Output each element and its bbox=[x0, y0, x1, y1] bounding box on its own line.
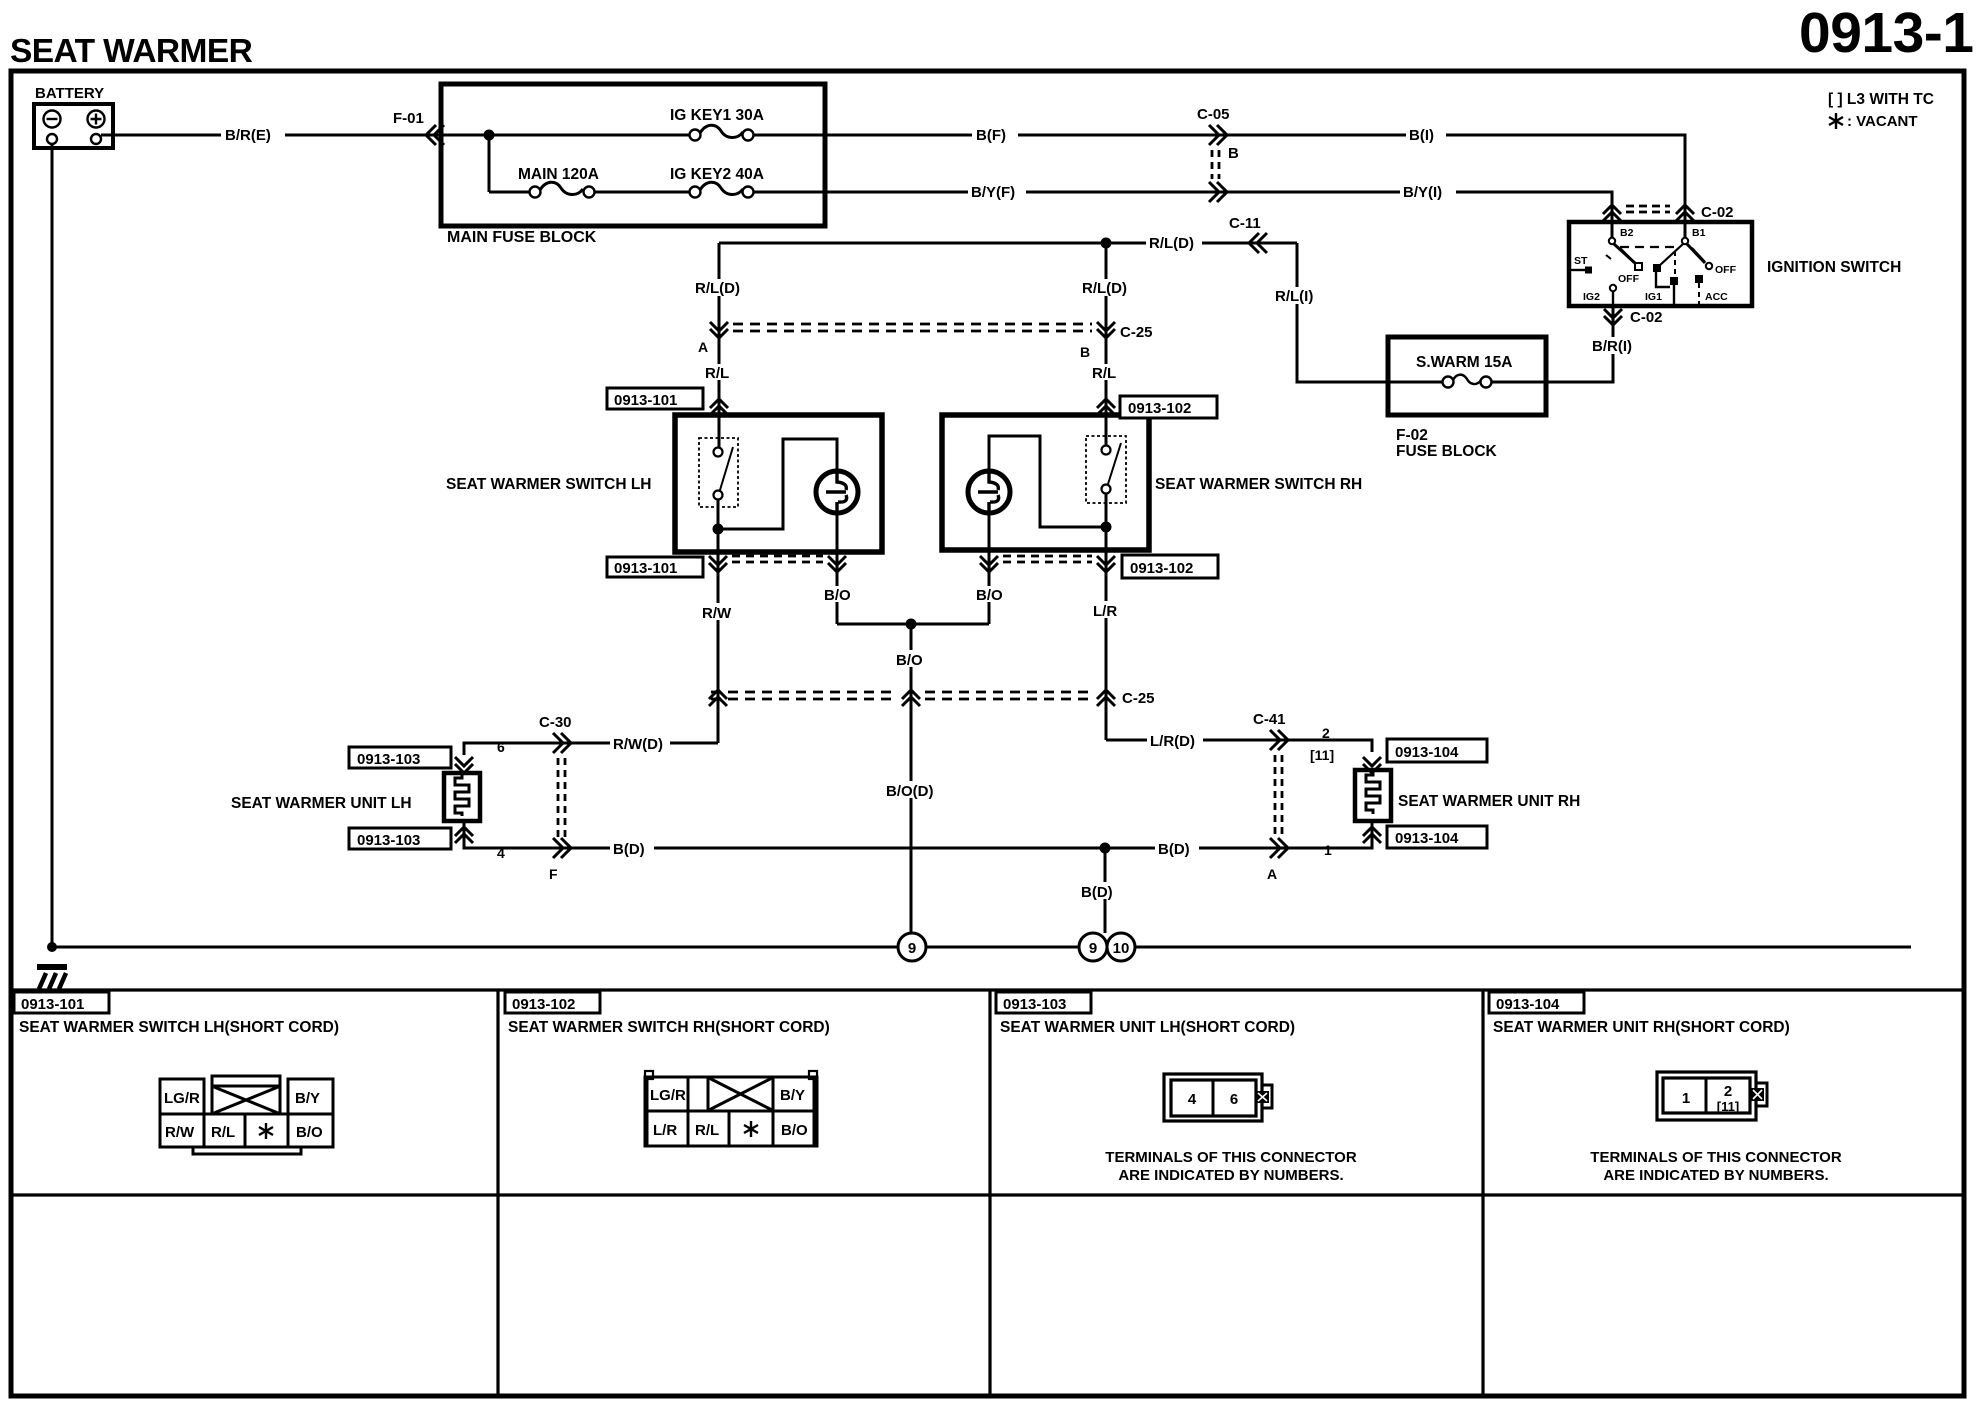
svg-text:9: 9 bbox=[908, 940, 916, 957]
svg-text:4: 4 bbox=[1188, 1091, 1197, 1108]
svg-text:IG1: IG1 bbox=[1645, 291, 1662, 303]
ignition terminal IG1 bbox=[1645, 251, 1678, 306]
id box 0913-102 lower bbox=[1122, 555, 1218, 578]
connector 0913-102 lower arrows bbox=[980, 556, 1115, 572]
connector arrow into unit RH top bbox=[1363, 757, 1381, 773]
connector C-05 bbox=[1197, 106, 1239, 202]
svg-text:R/L(D): R/L(D) bbox=[1149, 235, 1194, 252]
fuse MAIN 120A bbox=[518, 166, 599, 198]
indicator lamp RH bbox=[968, 471, 1010, 513]
svg-text:LG/R: LG/R bbox=[164, 1090, 200, 1107]
ignition terminal B2 bbox=[1609, 227, 1634, 244]
svg-text:IG KEY2 40A: IG KEY2 40A bbox=[670, 166, 764, 183]
wire R/L(D) left branch down to LH switch bbox=[718, 243, 721, 447]
wire lamp LH down bbox=[836, 513, 839, 552]
connector C-30 bbox=[497, 714, 572, 882]
svg-text:B/Y: B/Y bbox=[295, 1090, 320, 1107]
svg-text:C-02: C-02 bbox=[1630, 309, 1663, 326]
svg-text:F-02: F-02 bbox=[1396, 427, 1428, 444]
svg-text:R/W: R/W bbox=[165, 1124, 195, 1141]
battery BATTERY bbox=[34, 85, 113, 148]
svg-text:B1: B1 bbox=[1692, 227, 1706, 239]
svg-text:R/L: R/L bbox=[1092, 365, 1116, 382]
svg-text:ARE INDICATED BY NUMBERS.: ARE INDICATED BY NUMBERS. bbox=[1603, 1167, 1828, 1184]
svg-text:0913-102: 0913-102 bbox=[1128, 400, 1191, 417]
svg-text:B2: B2 bbox=[1620, 227, 1634, 239]
table vertical divider 1 bbox=[496, 990, 499, 1395]
fuse block F-02 box bbox=[1388, 337, 1546, 415]
connector 0913-101 lower arrows bbox=[709, 556, 846, 572]
svg-text:SEAT WARMER SWITCH RH: SEAT WARMER SWITCH RH bbox=[1155, 476, 1362, 493]
label F-02 FUSE BLOCK bbox=[1396, 427, 1498, 460]
connector C-41 bbox=[1253, 711, 1336, 882]
svg-text:ACC: ACC bbox=[1705, 291, 1728, 303]
wire lamp RH down bbox=[988, 513, 991, 550]
table vertical divider 3 bbox=[1481, 990, 1484, 1395]
svg-text:R/L: R/L bbox=[695, 1122, 719, 1139]
svg-text:0913-103: 0913-103 bbox=[1003, 996, 1066, 1013]
svg-text:IG KEY1 30A: IG KEY1 30A bbox=[670, 107, 764, 124]
svg-text:C-41: C-41 bbox=[1253, 711, 1286, 728]
wire B/O(D) label bbox=[883, 781, 949, 798]
fuse IG KEY2 40A bbox=[670, 166, 764, 198]
ground symbol bbox=[37, 967, 67, 989]
wire B/R(I) ignition IG2 to fuse block F-02 bbox=[1546, 306, 1613, 382]
wire fuse block row1 to row2 bbox=[488, 135, 491, 192]
connector arrow into LH switch bbox=[710, 399, 728, 415]
svg-text:F: F bbox=[549, 866, 558, 882]
connector C-02 lower bbox=[1604, 309, 1663, 326]
legend VACANT bbox=[1829, 113, 1918, 130]
svg-text:B(D): B(D) bbox=[613, 841, 645, 858]
main fuse block box bbox=[441, 84, 825, 226]
svg-text:B/O: B/O bbox=[824, 587, 851, 604]
svg-text:0913-101: 0913-101 bbox=[21, 996, 84, 1013]
wire switch LH to lamp bbox=[718, 439, 837, 552]
wire B(F) to C-05 to B(I) to ignition B1 bbox=[825, 135, 1685, 238]
svg-text:TERMINALS OF THIS CONNECTOR: TERMINALS OF THIS CONNECTOR bbox=[1590, 1149, 1842, 1166]
switch contact RH bbox=[1086, 436, 1126, 503]
svg-text:SEAT WARMER SWITCH LH: SEAT WARMER SWITCH LH bbox=[446, 476, 652, 493]
wire R/L right lower bbox=[1088, 364, 1124, 380]
ignition terminal ACC bbox=[1695, 275, 1728, 306]
connector C-11 bbox=[1229, 215, 1267, 253]
svg-text:B/Y(F): B/Y(F) bbox=[971, 184, 1015, 201]
svg-text:0913-103: 0913-103 bbox=[357, 751, 420, 768]
ignition contact OFF left bbox=[1618, 263, 1642, 285]
wire R/W(D) LH switch to unit LH bbox=[464, 743, 718, 755]
svg-text:10: 10 bbox=[1113, 940, 1130, 957]
connector arrow unit LH bottom bbox=[455, 827, 473, 843]
svg-text:0913-101: 0913-101 bbox=[614, 560, 677, 577]
wire B/O RH lamp down bbox=[988, 550, 991, 624]
junction node in fuse block bbox=[484, 130, 495, 141]
ground junction dot bbox=[47, 942, 57, 952]
table inner horizontal divider bbox=[13, 1193, 1963, 1196]
svg-text:R/L: R/L bbox=[705, 365, 729, 382]
ignition lever B1-OFF bbox=[1687, 244, 1705, 263]
svg-text:B/R(E): B/R(E) bbox=[225, 127, 271, 144]
connector face 0913-104 bbox=[1657, 1072, 1767, 1120]
table section divider top bbox=[13, 988, 1963, 991]
seat warmer unit LH bbox=[444, 773, 480, 821]
id box 0913-104 lower bbox=[1387, 826, 1487, 848]
svg-text:B(D): B(D) bbox=[1158, 841, 1190, 858]
svg-text:C-25: C-25 bbox=[1122, 690, 1155, 707]
svg-text:SEAT WARMER UNIT LH: SEAT WARMER UNIT LH bbox=[231, 795, 412, 812]
connector face 0913-101 bbox=[160, 1076, 333, 1154]
svg-text:B/Y(I): B/Y(I) bbox=[1403, 184, 1442, 201]
id box 0913-103 lower bbox=[349, 828, 451, 849]
svg-text:MAIN 120A: MAIN 120A bbox=[518, 166, 599, 183]
switch contact LH bbox=[699, 438, 738, 507]
svg-text:B(F): B(F) bbox=[976, 127, 1006, 144]
svg-text:L/R: L/R bbox=[653, 1122, 677, 1139]
wire B(D) unit LH to junction bbox=[464, 821, 1105, 848]
note terminals text col3 bbox=[1105, 1149, 1357, 1184]
wire battery negative to ground bus bbox=[51, 144, 54, 947]
ground node 10 bbox=[1107, 933, 1135, 961]
svg-text:SEAT WARMER UNIT RH: SEAT WARMER UNIT RH bbox=[1398, 793, 1580, 810]
svg-text:0913-104: 0913-104 bbox=[1395, 830, 1459, 847]
ignition terminal ST bbox=[1571, 255, 1592, 274]
svg-text:C-25: C-25 bbox=[1120, 324, 1153, 341]
wire B/O join bbox=[837, 623, 989, 626]
wire B/R(E) battery to main fuse block bbox=[101, 134, 441, 137]
connector arrow unit RH bottom bbox=[1363, 827, 1381, 843]
svg-text:B/Y: B/Y bbox=[780, 1087, 805, 1104]
id box 0913-101 table bbox=[14, 992, 109, 1013]
svg-text:1: 1 bbox=[1324, 842, 1332, 858]
id box 0913-104 table bbox=[1489, 992, 1584, 1013]
wire L/R(D) RH switch to unit RH bbox=[1106, 740, 1372, 752]
svg-text:MAIN FUSE BLOCK: MAIN FUSE BLOCK bbox=[447, 229, 597, 246]
svg-text:2: 2 bbox=[1322, 725, 1330, 741]
svg-text:SEAT WARMER UNIT RH(SHORT CORD: SEAT WARMER UNIT RH(SHORT CORD) bbox=[1493, 1019, 1790, 1036]
wire lamp RH to switch RH bbox=[989, 436, 1106, 527]
id box 0913-101 upper bbox=[607, 388, 703, 409]
connector C-25 upper bbox=[698, 322, 1153, 360]
wire R/L(D) right branch down to RH switch bbox=[1105, 243, 1108, 446]
junction node LH switch bbox=[713, 524, 724, 535]
svg-text:SEAT WARMER SWITCH LH(SHORT CO: SEAT WARMER SWITCH LH(SHORT CORD) bbox=[19, 1019, 339, 1036]
svg-text:L/R: L/R bbox=[1093, 603, 1117, 620]
svg-text:ARE INDICATED BY NUMBERS.: ARE INDICATED BY NUMBERS. bbox=[1118, 1167, 1343, 1184]
svg-text:R/W(D): R/W(D) bbox=[613, 736, 663, 753]
svg-text:R/L: R/L bbox=[211, 1124, 235, 1141]
svg-text:F-01: F-01 bbox=[393, 110, 424, 127]
svg-text:R/L(D): R/L(D) bbox=[1082, 280, 1127, 297]
wire B/Y(F) to C-05 to B/Y(I) to ignition B2 bbox=[825, 192, 1612, 238]
svg-text:B(D): B(D) bbox=[1081, 884, 1113, 901]
id box 0913-104 upper bbox=[1387, 739, 1487, 762]
connector F-01 bbox=[393, 110, 444, 145]
note terminals text col4 bbox=[1590, 1149, 1842, 1184]
ground bus wire bbox=[52, 946, 1911, 949]
svg-text:B(I): B(I) bbox=[1409, 127, 1434, 144]
svg-text:0913-101: 0913-101 bbox=[614, 392, 677, 409]
ignition switch box bbox=[1569, 222, 1752, 306]
svg-text:SEAT WARMER SWITCH RH(SHORT CO: SEAT WARMER SWITCH RH(SHORT CORD) bbox=[508, 1019, 830, 1036]
junction node B(D) bbox=[1100, 843, 1111, 854]
svg-text:IG2: IG2 bbox=[1583, 291, 1600, 303]
svg-text:0913-103: 0913-103 bbox=[357, 832, 420, 849]
table vertical divider 2 bbox=[988, 990, 991, 1395]
fuse S.WARM 15A bbox=[1388, 354, 1546, 388]
wire R/W LH switch down bbox=[717, 552, 720, 743]
wire L/R RH switch down bbox=[1105, 550, 1108, 740]
connector C-25 lower bbox=[709, 690, 1155, 707]
svg-text:TERMINALS OF THIS CONNECTOR: TERMINALS OF THIS CONNECTOR bbox=[1105, 1149, 1357, 1166]
svg-text:A: A bbox=[1267, 866, 1277, 882]
svg-text:9: 9 bbox=[1089, 940, 1097, 957]
wire B/O LH lamp down bbox=[836, 552, 839, 624]
svg-text:LG/R: LG/R bbox=[650, 1087, 686, 1104]
junction node RH switch bbox=[1101, 522, 1112, 533]
svg-text:B/O: B/O bbox=[976, 587, 1003, 604]
svg-text:2: 2 bbox=[1724, 1083, 1732, 1100]
svg-text:A: A bbox=[698, 339, 708, 355]
svg-text:B/O(D): B/O(D) bbox=[886, 783, 934, 800]
svg-text:6: 6 bbox=[497, 739, 505, 755]
id box 0913-101 lower bbox=[607, 557, 703, 577]
connector arrow into unit LH top bbox=[455, 757, 473, 773]
svg-text:: VACANT: : VACANT bbox=[1847, 113, 1918, 130]
svg-text:B/R(I): B/R(I) bbox=[1592, 338, 1632, 355]
wire B(D) unit RH to junction bbox=[1105, 821, 1372, 848]
fuse IG KEY1 30A bbox=[670, 107, 764, 141]
svg-text:0913-102: 0913-102 bbox=[1130, 560, 1193, 577]
wire row1 inside fuse block bbox=[441, 134, 825, 137]
svg-text:[11]: [11] bbox=[1310, 747, 1334, 763]
junction node B/O bbox=[906, 619, 917, 630]
svg-text:OFF: OFF bbox=[1618, 273, 1640, 285]
svg-text:C-11: C-11 bbox=[1229, 215, 1261, 232]
svg-text:SEAT WARMER UNIT LH(SHORT CORD: SEAT WARMER UNIT LH(SHORT CORD) bbox=[1000, 1019, 1295, 1036]
svg-text:B: B bbox=[1080, 344, 1090, 360]
connector face 0913-102 bbox=[645, 1071, 817, 1146]
ignition lever B1 to IG1 bbox=[1653, 244, 1683, 287]
svg-text:B/O: B/O bbox=[296, 1124, 323, 1141]
seat warmer switch LH box bbox=[675, 415, 882, 552]
ground node 9 right bbox=[1079, 933, 1107, 961]
svg-text:R/L(D): R/L(D) bbox=[695, 280, 740, 297]
connector arrow into RH switch bbox=[1097, 399, 1115, 415]
seat warmer switch RH box bbox=[942, 415, 1149, 550]
svg-text:[11]: [11] bbox=[1717, 1099, 1739, 1114]
svg-text:R/L(I): R/L(I) bbox=[1275, 288, 1313, 305]
svg-text:[ ] L3 WITH TC: [ ] L3 WITH TC bbox=[1828, 91, 1934, 108]
ignition dashed link B2-B1 bbox=[1620, 246, 1678, 248]
svg-text:0913-1: 0913-1 bbox=[1799, 1, 1974, 65]
svg-text:B/O: B/O bbox=[896, 652, 923, 669]
ignition terminal B1 bbox=[1682, 227, 1706, 244]
ignition lever B2-OFF bbox=[1606, 244, 1636, 264]
svg-text:R/W: R/W bbox=[702, 605, 732, 622]
id box 0913-102 table bbox=[505, 992, 600, 1013]
svg-text:OFF: OFF bbox=[1715, 264, 1737, 276]
svg-text:6: 6 bbox=[1230, 1091, 1238, 1108]
svg-text:C-02: C-02 bbox=[1701, 204, 1734, 221]
id box 0913-103 table bbox=[996, 992, 1091, 1013]
svg-text:0913-102: 0913-102 bbox=[512, 996, 575, 1013]
seat warmer unit RH bbox=[1355, 770, 1391, 821]
svg-text:IGNITION SWITCH: IGNITION SWITCH bbox=[1767, 259, 1901, 276]
ground node 9 left bbox=[898, 933, 926, 961]
ignition contact OFF right bbox=[1706, 263, 1737, 276]
id box 0913-103 upper bbox=[349, 747, 451, 768]
svg-text:L/R(D): L/R(D) bbox=[1150, 733, 1195, 750]
id box 0913-102 upper bbox=[1120, 396, 1217, 418]
junction node R/L(D) bbox=[1101, 238, 1112, 249]
svg-text:S.WARM 15A: S.WARM 15A bbox=[1416, 354, 1512, 371]
wire B(D) down to ground bbox=[1104, 848, 1107, 933]
wire R/L(I) fuse block to C-11 bbox=[1297, 243, 1388, 382]
indicator lamp LH bbox=[816, 471, 858, 513]
wire B/O combined down bbox=[910, 624, 913, 933]
svg-text:1: 1 bbox=[1682, 1090, 1690, 1107]
svg-text:SEAT WARMER: SEAT WARMER bbox=[10, 33, 253, 70]
wire R/L(D) horizontal bbox=[719, 242, 1297, 245]
svg-text:B/O: B/O bbox=[781, 1122, 808, 1139]
svg-text:C-30: C-30 bbox=[539, 714, 572, 731]
svg-text:0913-104: 0913-104 bbox=[1496, 996, 1560, 1013]
svg-text:0913-104: 0913-104 bbox=[1395, 744, 1459, 761]
wire row2 inside fuse block bbox=[489, 191, 825, 194]
ignition terminal IG2 bbox=[1583, 285, 1616, 306]
svg-text:C-05: C-05 bbox=[1197, 106, 1230, 123]
svg-text:BATTERY: BATTERY bbox=[35, 85, 104, 102]
wire R/L left lower bbox=[701, 364, 737, 380]
svg-text:FUSE BLOCK: FUSE BLOCK bbox=[1396, 443, 1498, 460]
svg-text:ST: ST bbox=[1574, 255, 1588, 267]
connector C-02 upper bbox=[1603, 204, 1734, 221]
wire switch RH down bbox=[1105, 494, 1108, 550]
connector face 0913-103 bbox=[1164, 1074, 1272, 1121]
svg-text:B: B bbox=[1228, 145, 1239, 162]
